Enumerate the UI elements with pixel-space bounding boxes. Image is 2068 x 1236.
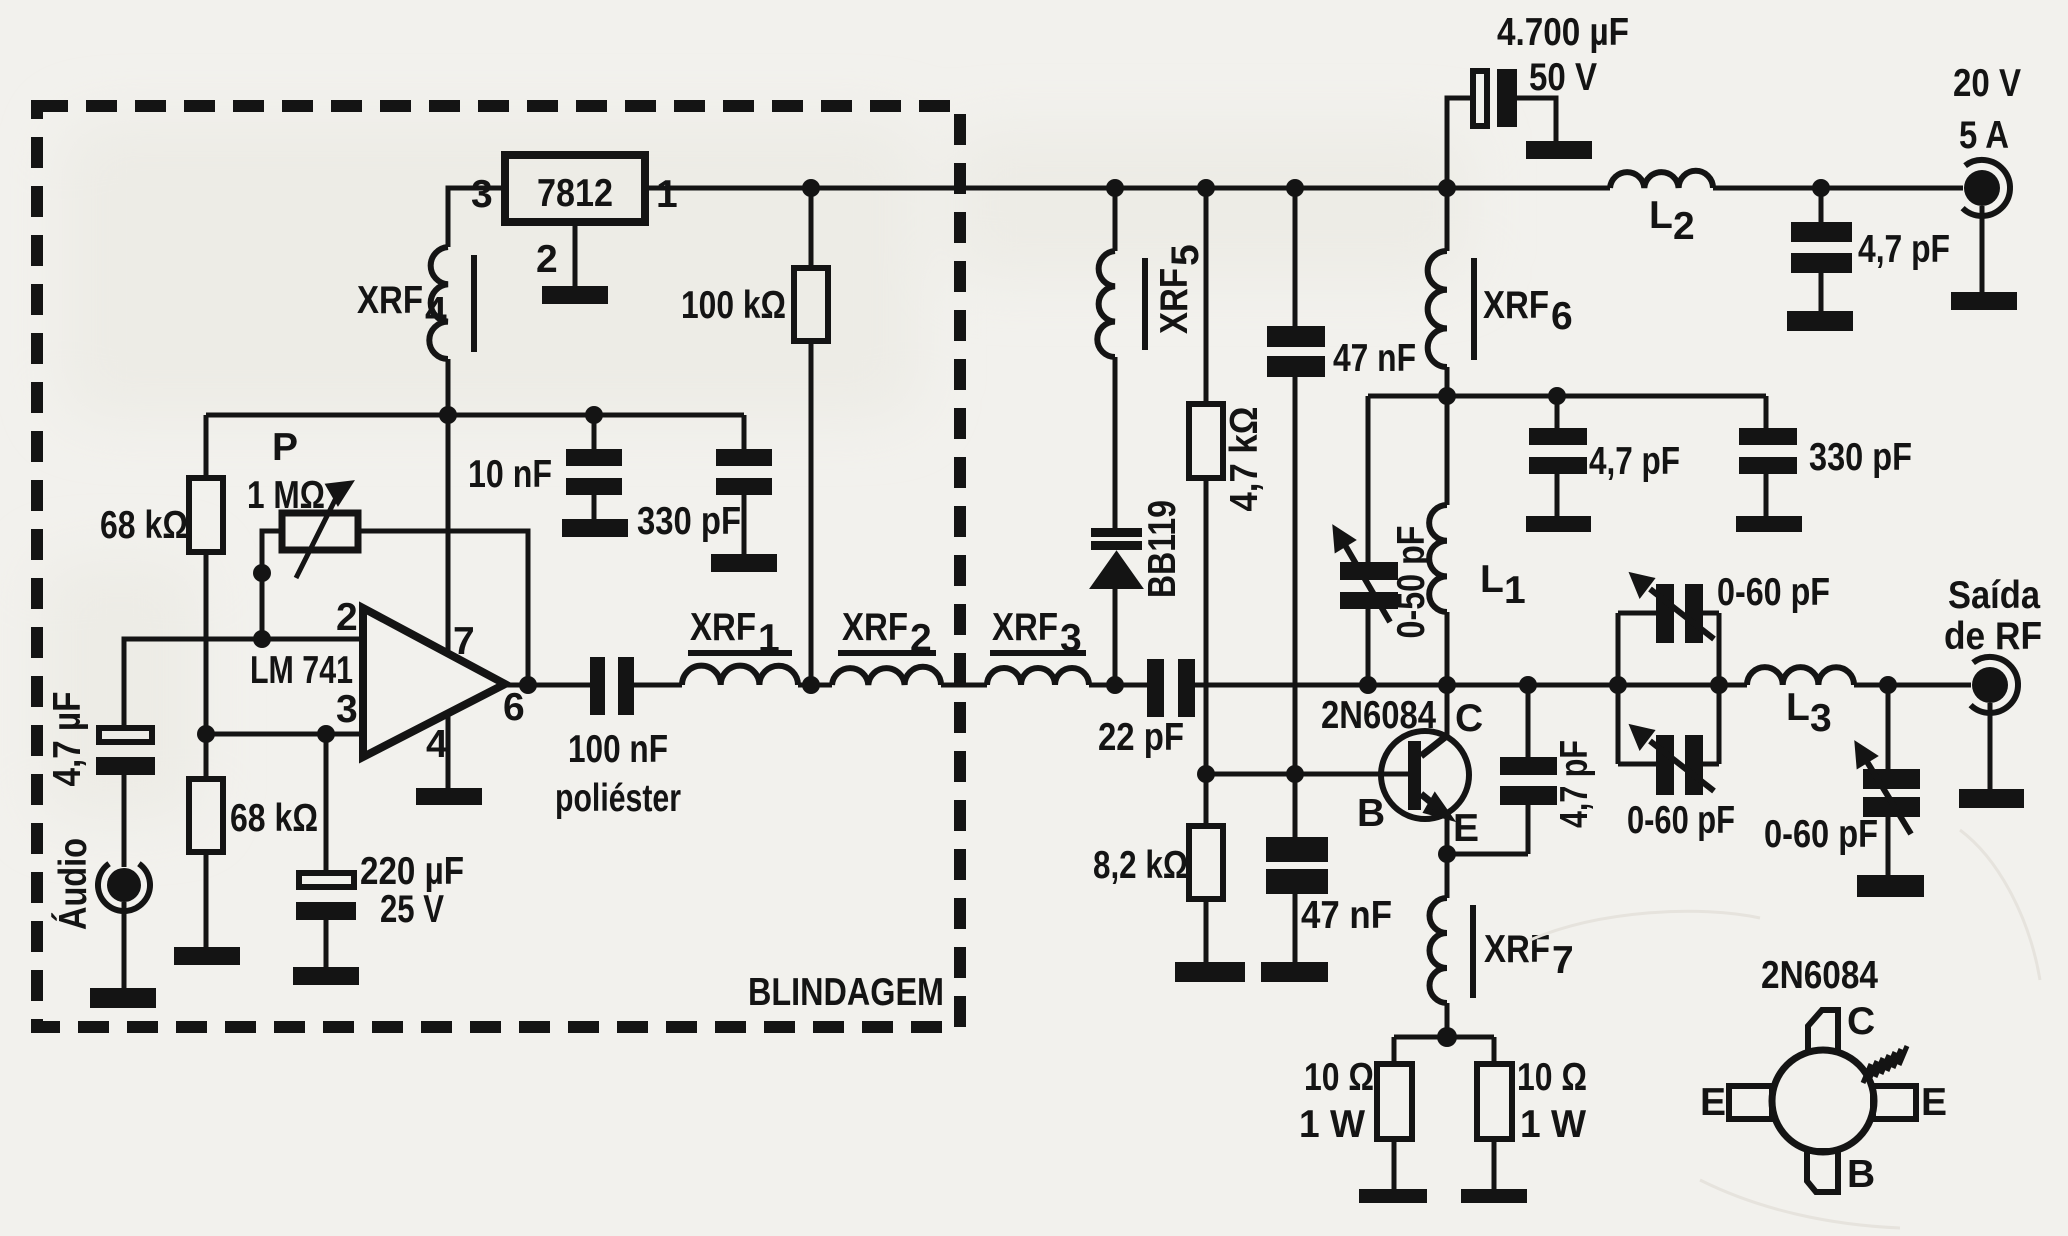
svg-text:7812: 7812 bbox=[537, 172, 613, 215]
pin 2 label bbox=[536, 238, 558, 281]
svg-text:0-50 pF: 0-50 pF bbox=[1390, 526, 1433, 639]
label L1 bbox=[1480, 558, 1526, 612]
label 4,7 pF (rail) bbox=[1858, 228, 1950, 271]
node XRF6/L1 on row bbox=[1438, 387, 1456, 405]
ground under RF terminal bbox=[1959, 789, 2024, 808]
svg-text:3: 3 bbox=[1060, 617, 1082, 660]
inductor XRF5 bbox=[1097, 188, 1145, 357]
inductor XRF1 bbox=[682, 653, 798, 685]
capacitor 47 nF lower bbox=[1266, 774, 1328, 964]
svg-text:100 nF: 100 nF bbox=[568, 728, 668, 771]
resistor 4,7 kOhm bbox=[1189, 188, 1223, 774]
capacitor 4,7 uF electrolytic bbox=[96, 728, 155, 775]
label E package right bbox=[1921, 1081, 1947, 1124]
svg-text:2N6084: 2N6084 bbox=[1321, 694, 1436, 737]
wire XRF1 to XRF2 bbox=[798, 683, 832, 688]
svg-text:2: 2 bbox=[536, 238, 558, 281]
label P bbox=[272, 426, 298, 469]
capacitor 22 pF (series) bbox=[1147, 659, 1195, 717]
ground under 330pF bbox=[711, 554, 777, 572]
svg-text:L: L bbox=[1649, 194, 1673, 237]
node bridge left bbox=[1609, 676, 1627, 694]
wire emitter to bypass cap bbox=[1447, 805, 1528, 854]
svg-text:C: C bbox=[1847, 1000, 1875, 1043]
wire XRF4 bottom to node bbox=[446, 359, 451, 415]
pin 3 label bbox=[336, 688, 358, 731]
pin 7 label bbox=[453, 620, 475, 663]
node 4,7pF rail bbox=[1812, 179, 1830, 197]
label 10 Ohm left bbox=[1304, 1056, 1374, 1099]
svg-text:330 pF: 330 pF bbox=[637, 500, 741, 543]
svg-text:4,7 pF: 4,7 pF bbox=[1589, 440, 1680, 483]
inductor L2 bbox=[1610, 171, 1713, 188]
label 10 nF bbox=[468, 453, 552, 496]
svg-text:6: 6 bbox=[1551, 295, 1573, 338]
node 47nF column on rail bbox=[1286, 179, 1304, 197]
pin 2 label bbox=[336, 596, 358, 639]
svg-text:4,7 pF: 4,7 pF bbox=[1858, 228, 1950, 271]
svg-text:BB119: BB119 bbox=[1141, 500, 1184, 598]
label 5 A bbox=[1959, 114, 2009, 157]
svg-text:50 V: 50 V bbox=[1529, 56, 1597, 99]
node pot wiper junction bbox=[253, 564, 271, 582]
label Saida bbox=[1948, 574, 2040, 617]
label XRF7 bbox=[1484, 928, 1574, 982]
svg-text:22 pF: 22 pF bbox=[1098, 716, 1184, 759]
label 2N6084 package bbox=[1761, 954, 1878, 997]
pin 4 label bbox=[426, 723, 448, 766]
capacitor 4,7 pF (row) bbox=[1529, 428, 1587, 516]
label 10 Ohm right bbox=[1517, 1056, 1587, 1099]
ground under 4,7pF rail bbox=[1787, 311, 1853, 331]
svg-text:P: P bbox=[272, 426, 298, 469]
label LM 741 bbox=[250, 649, 353, 692]
node pin2/pot junction bbox=[253, 630, 271, 648]
pin 6 label bbox=[503, 686, 525, 729]
svg-text:47 nF: 47 nF bbox=[1301, 894, 1392, 937]
label 4,7 pF (row) bbox=[1589, 440, 1680, 483]
svg-text:10 Ω: 10 Ω bbox=[1517, 1056, 1587, 1099]
svg-text:Saída: Saída bbox=[1948, 574, 2040, 617]
label 4,7 pF (rotated) bbox=[1553, 740, 1596, 828]
label 1 W right bbox=[1520, 1103, 1586, 1146]
capacitor 100 nF poliester (series) bbox=[590, 657, 634, 715]
label XRF3 bbox=[992, 606, 1082, 660]
capacitor 4,7 pF (rail) bbox=[1791, 188, 1852, 311]
svg-text:E: E bbox=[1700, 1081, 1726, 1124]
label C bbox=[1455, 697, 1483, 740]
wire XRF3 to 22pF bbox=[1089, 683, 1148, 688]
svg-text:25 V: 25 V bbox=[380, 888, 444, 931]
svg-text:8,2 kΩ: 8,2 kΩ bbox=[1093, 844, 1188, 887]
scan smudge marks bbox=[1530, 830, 2040, 1228]
ground under audio bbox=[90, 988, 156, 1008]
connector Audio input bbox=[98, 864, 150, 911]
label 4.700 uF bbox=[1497, 11, 1629, 54]
label poliester bbox=[555, 777, 681, 820]
node BB119 column bbox=[1106, 676, 1124, 694]
node XRF5 on rail bbox=[1106, 179, 1124, 197]
svg-text:2: 2 bbox=[336, 596, 358, 639]
transistor Q1 2N6084 bbox=[1381, 731, 1469, 819]
node resistor split bbox=[1437, 1027, 1457, 1047]
ground under 220uF bbox=[293, 967, 359, 985]
svg-text:1: 1 bbox=[656, 173, 678, 216]
label 330 pF (row) bbox=[1809, 436, 1912, 479]
wire trimmer bridge bbox=[1618, 613, 1719, 764]
resistor 10 Ohm 1W right bbox=[1477, 1064, 1512, 1189]
svg-text:68 kΩ: 68 kΩ bbox=[230, 797, 318, 840]
label BB119 (rotated) bbox=[1141, 500, 1184, 598]
label 22 pF bbox=[1098, 716, 1184, 759]
label 220 uF bbox=[360, 850, 464, 893]
svg-text:poliéster: poliéster bbox=[555, 777, 681, 820]
ground under 4,7pF row bbox=[1526, 516, 1591, 532]
label 0-60 pF lower bbox=[1627, 799, 1735, 842]
node 10nF junction bbox=[585, 406, 603, 424]
wire 22pF to collector node bbox=[1195, 683, 1747, 688]
svg-text:7: 7 bbox=[453, 620, 475, 663]
capacitor 4,7 pF (emitter) bbox=[1500, 685, 1557, 805]
pin 1 label bbox=[656, 173, 678, 216]
ground under 10 Ohm right bbox=[1461, 1189, 1527, 1203]
svg-text:4: 4 bbox=[425, 290, 447, 333]
label 0-60 pF upper bbox=[1717, 571, 1830, 614]
wire audio jack to ground bbox=[122, 902, 127, 988]
label 4,7 kOhm (rotated) bbox=[1223, 407, 1266, 512]
wire 7812 pin3 to XRF4 top bbox=[448, 188, 505, 247]
svg-text:3: 3 bbox=[336, 688, 358, 731]
svg-text:1: 1 bbox=[1504, 569, 1526, 612]
trimmer 0-50 pF bbox=[1334, 527, 1398, 685]
label B bbox=[1357, 792, 1385, 835]
label 50 V bbox=[1529, 56, 1597, 99]
label C package bbox=[1847, 1000, 1875, 1043]
label XRF2 bbox=[842, 606, 932, 660]
svg-text:220 µF: 220 µF bbox=[360, 850, 464, 893]
label XRF4 bbox=[357, 279, 447, 333]
inductor XRF4 bbox=[429, 247, 474, 359]
svg-text:BLINDAGEM: BLINDAGEM bbox=[748, 971, 944, 1014]
svg-text:0-60 pF: 0-60 pF bbox=[1627, 799, 1735, 842]
label E bbox=[1453, 807, 1479, 850]
node base/47nF bbox=[1286, 765, 1304, 783]
pin 3 label bbox=[471, 173, 493, 216]
svg-text:XRF: XRF bbox=[1153, 268, 1196, 334]
node 220uF / pin3 bbox=[317, 725, 335, 743]
2N6084 package pinout drawing bbox=[1729, 1010, 1916, 1192]
resistor 100 kOhm bbox=[794, 188, 828, 685]
label de RF bbox=[1944, 615, 2042, 658]
node XRF6/4700uF on rail bbox=[1438, 179, 1456, 197]
ground op-amp pin4 bbox=[416, 788, 482, 805]
label 25 V bbox=[380, 888, 444, 931]
node collector bbox=[1438, 676, 1456, 694]
label XRF1 bbox=[690, 606, 780, 660]
label Audio (rotated) bbox=[51, 838, 95, 930]
inductor L3 bbox=[1747, 667, 1854, 685]
trimmer 0-60 pF upper bbox=[1631, 574, 1714, 643]
wire tuning row bbox=[1368, 396, 1766, 562]
svg-text:2: 2 bbox=[1673, 205, 1695, 248]
wire XRF6 to tuning row bbox=[1445, 367, 1450, 396]
inductor XRF3 bbox=[987, 653, 1089, 685]
svg-text:XRF: XRF bbox=[842, 606, 908, 649]
node 4,7pF on signal wire bbox=[1519, 676, 1537, 694]
capacitor 47 nF upper bbox=[1267, 188, 1325, 774]
trimmer 0-60 pF lower bbox=[1631, 726, 1714, 795]
label L2 bbox=[1649, 194, 1695, 248]
ground under 8,2k bbox=[1175, 962, 1245, 982]
ground under 47nF lower bbox=[1261, 962, 1328, 982]
label 68 kOhm lower bbox=[230, 797, 318, 840]
terminal 20V 5A bbox=[1963, 160, 2010, 292]
svg-text:de RF: de RF bbox=[1944, 615, 2042, 658]
wire 7812 pin2 stub bbox=[573, 222, 578, 288]
node bridge right bbox=[1710, 676, 1728, 694]
wire +20V rail from 7812 pin1 to 20V terminal bbox=[645, 186, 1963, 191]
wire L3 to output terminal bbox=[1854, 683, 1971, 688]
svg-text:E: E bbox=[1453, 807, 1479, 850]
svg-text:4,7 µF: 4,7 µF bbox=[46, 692, 89, 787]
label 47 nF lower bbox=[1301, 894, 1392, 937]
label L3 bbox=[1786, 686, 1832, 740]
terminal Saida de RF bbox=[1971, 657, 2018, 789]
wire XRF2 to XRF3 bbox=[941, 683, 987, 688]
trimmer 0-60 pF output bbox=[1856, 685, 1920, 875]
resistor 8,2 kOhm bbox=[1189, 774, 1223, 964]
label 4,7 uF (rotated) bbox=[46, 692, 89, 787]
wire non-inverting pin3 bbox=[206, 732, 365, 737]
node output/feedback bbox=[519, 676, 537, 694]
label 1 W left bbox=[1299, 1103, 1365, 1146]
svg-text:47 nF: 47 nF bbox=[1333, 337, 1416, 380]
svg-text:3: 3 bbox=[1810, 697, 1832, 740]
svg-text:330 pF: 330 pF bbox=[1809, 436, 1912, 479]
svg-text:1 MΩ: 1 MΩ bbox=[247, 474, 325, 517]
svg-text:C: C bbox=[1455, 697, 1483, 740]
svg-text:3: 3 bbox=[471, 173, 493, 216]
svg-text:100 kΩ: 100 kΩ bbox=[681, 284, 786, 327]
svg-text:4: 4 bbox=[426, 723, 448, 766]
label 100 nF bbox=[568, 728, 668, 771]
ground under 7812 bbox=[542, 286, 608, 304]
svg-text:7: 7 bbox=[1552, 939, 1574, 982]
svg-text:B: B bbox=[1847, 1153, 1875, 1196]
svg-text:1: 1 bbox=[758, 617, 780, 660]
label 68 kOhm upper bbox=[100, 504, 188, 547]
op-amp U1 LM741 bbox=[363, 608, 505, 757]
svg-text:LM 741: LM 741 bbox=[250, 649, 353, 692]
svg-text:1 W: 1 W bbox=[1520, 1103, 1586, 1146]
svg-text:20 V: 20 V bbox=[1953, 62, 2021, 105]
svg-text:4,7 pF: 4,7 pF bbox=[1553, 740, 1596, 828]
svg-text:E: E bbox=[1921, 1081, 1947, 1124]
wire collector to signal node bbox=[1445, 685, 1450, 737]
inductor XRF6 bbox=[1428, 188, 1474, 367]
svg-text:5: 5 bbox=[1164, 244, 1207, 266]
wire base of transistor bbox=[1206, 772, 1408, 777]
svg-text:68 kΩ: 68 kΩ bbox=[100, 504, 188, 547]
node 0-50pF on signal wire bbox=[1359, 676, 1377, 694]
svg-text:0-60 pF: 0-60 pF bbox=[1717, 571, 1830, 614]
wire XRF7 to resistor split bbox=[1394, 1003, 1494, 1064]
svg-text:10 nF: 10 nF bbox=[468, 453, 552, 496]
ground under 10 Ohm left bbox=[1359, 1189, 1427, 1203]
ground under 68k lower bbox=[174, 947, 240, 965]
label 0-60 pF output bbox=[1764, 813, 1878, 856]
wire inverting input pin2 bbox=[124, 639, 365, 728]
inductor XRF2 bbox=[832, 653, 941, 685]
node emitter bbox=[1438, 845, 1456, 863]
label 330 pF bbox=[637, 500, 741, 543]
svg-text:5 A: 5 A bbox=[1959, 114, 2009, 157]
svg-text:6: 6 bbox=[503, 686, 525, 729]
svg-text:XRF: XRF bbox=[1483, 284, 1549, 327]
svg-text:L: L bbox=[1786, 686, 1810, 729]
svg-text:4.700 µF: 4.700 µF bbox=[1497, 11, 1629, 54]
label B package bbox=[1847, 1153, 1875, 1196]
ground under 4.700uF bbox=[1526, 141, 1592, 159]
svg-text:Áudio: Áudio bbox=[51, 838, 95, 930]
ground under 20V terminal bbox=[1951, 292, 2017, 310]
node output trimmer bbox=[1879, 676, 1897, 694]
wire XRF5 to BB119 bbox=[1113, 357, 1118, 528]
wire op-amp output bbox=[505, 683, 590, 688]
ground under 10nF bbox=[562, 519, 628, 537]
ground under output trimmer bbox=[1857, 875, 1924, 897]
svg-text:L: L bbox=[1480, 558, 1504, 601]
node base/8,2k bbox=[1197, 765, 1215, 783]
wire 100nF to XRF1 bbox=[634, 683, 682, 688]
regulator U2 7812 bbox=[505, 155, 645, 222]
label 47 nF upper bbox=[1333, 337, 1416, 380]
label XRF6 bbox=[1483, 284, 1573, 338]
node XRF4/pin7 junction bbox=[439, 406, 457, 424]
capacitor 4.700 uF 50V electrolytic bbox=[1447, 69, 1556, 188]
inductor L1 bbox=[1429, 396, 1447, 685]
label BLINDAGEM bbox=[748, 971, 944, 1014]
svg-text:10 Ω: 10 Ω bbox=[1304, 1056, 1374, 1099]
capacitor 220 uF electrolytic bbox=[296, 734, 356, 967]
wire 4,7uF to audio jack bbox=[122, 775, 127, 867]
label 0-50 pF (rotated) bbox=[1390, 526, 1433, 639]
label 8,2 kOhm bbox=[1093, 844, 1188, 887]
svg-text:0-60 pF: 0-60 pF bbox=[1764, 813, 1878, 856]
resistor 68 kOhm lower bbox=[189, 779, 223, 947]
node 100k column on signal wire bbox=[802, 676, 820, 694]
node 4,7k column on rail bbox=[1197, 179, 1215, 197]
node 4,7pF on row bbox=[1548, 387, 1566, 405]
capacitor 10 nF bbox=[566, 449, 622, 519]
svg-text:2: 2 bbox=[910, 617, 932, 660]
varicap diode BB119 bbox=[1091, 528, 1142, 685]
faint scan ghosting tone bbox=[40, 120, 1470, 820]
svg-text:4,7 kΩ: 4,7 kΩ bbox=[1223, 407, 1266, 512]
capacitor 330 pF (shield) bbox=[716, 449, 772, 554]
shield box BLINDAGEM (dashed enclosure) bbox=[37, 106, 960, 1027]
wire pin7 to +12V node bbox=[446, 415, 451, 655]
label 1 MOhm bbox=[247, 474, 325, 517]
svg-text:1 W: 1 W bbox=[1299, 1103, 1365, 1146]
wire bias node horizontal bbox=[206, 415, 744, 478]
svg-text:2N6084: 2N6084 bbox=[1761, 954, 1878, 997]
svg-text:XRF: XRF bbox=[690, 606, 756, 649]
svg-text:XRF: XRF bbox=[992, 606, 1058, 649]
potentiometer P 1 MOhm bbox=[262, 482, 358, 639]
inductor XRF7 bbox=[1430, 854, 1474, 1003]
node 68k divider / pin3 bbox=[197, 725, 215, 743]
resistor 68 kOhm upper bbox=[189, 478, 223, 779]
capacitor 330 pF (row) bbox=[1739, 428, 1797, 516]
wire pin4 to ground bbox=[446, 712, 451, 790]
label XRF5 (rotated) bbox=[1153, 244, 1207, 334]
node 100k on rail bbox=[802, 179, 820, 197]
resistor 10 Ohm 1W left bbox=[1377, 1064, 1412, 1189]
ground under 330pF row bbox=[1736, 516, 1802, 532]
svg-text:B: B bbox=[1357, 792, 1385, 835]
wire pot to output feedback bbox=[358, 531, 528, 685]
label 20 V bbox=[1953, 62, 2021, 105]
svg-text:XRF: XRF bbox=[357, 279, 423, 322]
label 100 kOhm bbox=[681, 284, 786, 327]
label E package left bbox=[1700, 1081, 1726, 1124]
label 2N6084 bbox=[1321, 694, 1436, 737]
